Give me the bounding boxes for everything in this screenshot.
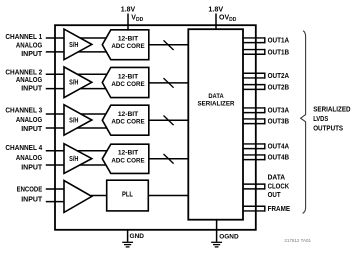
svg-text:12-BIT: 12-BIT: [118, 73, 138, 80]
svg-text:PLL: PLL: [122, 192, 133, 199]
svg-text:ANALOG: ANALOG: [16, 155, 43, 162]
svg-text:OUT: OUT: [268, 192, 282, 199]
svg-text:OUT2B: OUT2B: [268, 84, 290, 91]
svg-text:DATA: DATA: [268, 174, 286, 181]
output pair OUT4A: [243, 143, 265, 149]
label ENCODE INPUT: [17, 186, 43, 203]
bus slash 4: [164, 154, 174, 164]
svg-text:OVDD: OVDD: [219, 15, 237, 23]
output pair OUT2B: [243, 84, 265, 90]
output pair DATA CLOCK OUT: [243, 183, 265, 189]
wire ADC2 to serializer bus: [149, 82, 189, 84]
GND pin: [122, 230, 144, 247]
svg-text:INPUT: INPUT: [21, 165, 43, 172]
wire ENCODE input pair: [46, 189, 65, 202]
label CHANNEL 4 ANALOG INPUT: [5, 145, 43, 172]
encode buffer amplifier: [64, 181, 92, 213]
ADC core U2: [102, 67, 149, 97]
svg-text:ADC CORE: ADC CORE: [111, 157, 145, 164]
wire CH4 input pair: [46, 151, 111, 165]
svg-text:SERIALIZER: SERIALIZER: [198, 100, 235, 107]
svg-text:LVDS: LVDS: [313, 116, 328, 123]
svg-text:INPUT: INPUT: [21, 51, 43, 58]
svg-text:ADC CORE: ADC CORE: [111, 119, 145, 126]
svg-text:CLOCK: CLOCK: [268, 184, 290, 191]
label CHANNEL 1 ANALOG INPUT: [5, 34, 43, 58]
wire ADC4 to serializer bus: [149, 158, 189, 160]
svg-text:INPUT: INPUT: [21, 126, 43, 133]
svg-text:12-BIT: 12-BIT: [118, 111, 138, 118]
svg-text:1.8V: 1.8V: [208, 7, 223, 14]
svg-text:DATA: DATA: [208, 93, 224, 100]
svg-text:VDD: VDD: [131, 15, 143, 23]
svg-text:ANALOG: ANALOG: [16, 42, 43, 49]
bus slash 3: [164, 116, 174, 126]
svg-text:ADC CORE: ADC CORE: [111, 43, 145, 50]
chip boundary: [55, 25, 256, 230]
svg-text:ANALOG: ANALOG: [16, 77, 43, 84]
wire PLL to serializer: [148, 195, 188, 197]
label CHANNEL 3 ANALOG INPUT: [5, 108, 43, 134]
wire ADC3 to serializer bus: [149, 119, 189, 121]
output pair OUT3A: [243, 107, 265, 113]
bus slash 1: [164, 40, 174, 50]
label SERIALIZED LVDS OUTPUTS: [313, 106, 350, 132]
PLL block: [107, 180, 149, 211]
S/H amplifier A2: [64, 67, 92, 98]
ADC core U1: [102, 30, 149, 60]
ADC core U3: [102, 105, 149, 135]
output pair OUT4B: [243, 154, 265, 160]
svg-text:OUT1B: OUT1B: [268, 49, 290, 56]
svg-text:S/H: S/H: [69, 42, 78, 49]
wire encode buffer to PLL: [91, 195, 107, 197]
svg-text:OGND: OGND: [219, 233, 239, 240]
svg-text:OUT4B: OUT4B: [268, 155, 290, 162]
svg-text:CHANNEL 1: CHANNEL 1: [5, 34, 42, 41]
svg-text:GND: GND: [130, 233, 145, 240]
label DATA CLOCK OUT: [268, 174, 290, 199]
svg-text:INPUT: INPUT: [21, 197, 43, 204]
svg-text:12-BIT: 12-BIT: [118, 36, 138, 43]
output pair OUT3B: [243, 118, 265, 124]
svg-text:1.8V: 1.8V: [121, 7, 136, 14]
svg-text:ENCODE: ENCODE: [17, 186, 43, 193]
svg-text:INPUT: INPUT: [21, 86, 43, 93]
svg-text:OUT3B: OUT3B: [268, 119, 290, 126]
wire CH3 input pair: [46, 114, 111, 128]
svg-text:OUT1A: OUT1A: [268, 38, 290, 45]
svg-text:OUT3A: OUT3A: [268, 108, 290, 115]
svg-text:CHANNEL 2: CHANNEL 2: [5, 69, 42, 76]
svg-text:S/H: S/H: [69, 117, 78, 124]
ADC core U4: [102, 144, 149, 173]
svg-text:217512 TA01: 217512 TA01: [284, 238, 311, 243]
OGND pin: [211, 220, 239, 247]
output pair OUT1A: [243, 37, 265, 43]
OVDD supply line: [215, 14, 217, 30]
output pair OUT1B: [243, 49, 265, 55]
S/H amplifier A1: [64, 29, 92, 60]
svg-text:OUT2A: OUT2A: [268, 73, 290, 80]
wire ADC1 to serializer bus: [149, 44, 189, 46]
svg-text:CHANNEL 3: CHANNEL 3: [5, 108, 42, 115]
wire CH2 input pair: [46, 74, 111, 88]
VDD supply line: [127, 14, 129, 30]
svg-text:S/H: S/H: [69, 80, 78, 87]
data serializer block: [188, 29, 243, 220]
svg-text:FRAME: FRAME: [268, 206, 291, 213]
svg-text:ADC CORE: ADC CORE: [111, 81, 145, 88]
svg-text:12-BIT: 12-BIT: [118, 150, 138, 157]
output pair FRAME: [243, 206, 265, 212]
svg-text:OUTPUTS: OUTPUTS: [313, 126, 343, 133]
label CHANNEL 2 ANALOG INPUT: [5, 69, 43, 92]
svg-text:ANALOG: ANALOG: [16, 117, 43, 124]
svg-text:SERIALIZED: SERIALIZED: [313, 106, 350, 113]
svg-text:S/H: S/H: [69, 156, 78, 163]
S/H amplifier A3: [64, 105, 92, 136]
svg-text:OUT4A: OUT4A: [268, 144, 290, 151]
svg-text:CHANNEL 4: CHANNEL 4: [5, 145, 42, 152]
bus slash 2: [164, 78, 174, 88]
output pair OUT2A: [243, 73, 265, 79]
wire CH1 input pair: [46, 38, 111, 52]
brace for LVDS outputs: [301, 31, 306, 214]
S/H amplifier A4: [64, 144, 92, 174]
